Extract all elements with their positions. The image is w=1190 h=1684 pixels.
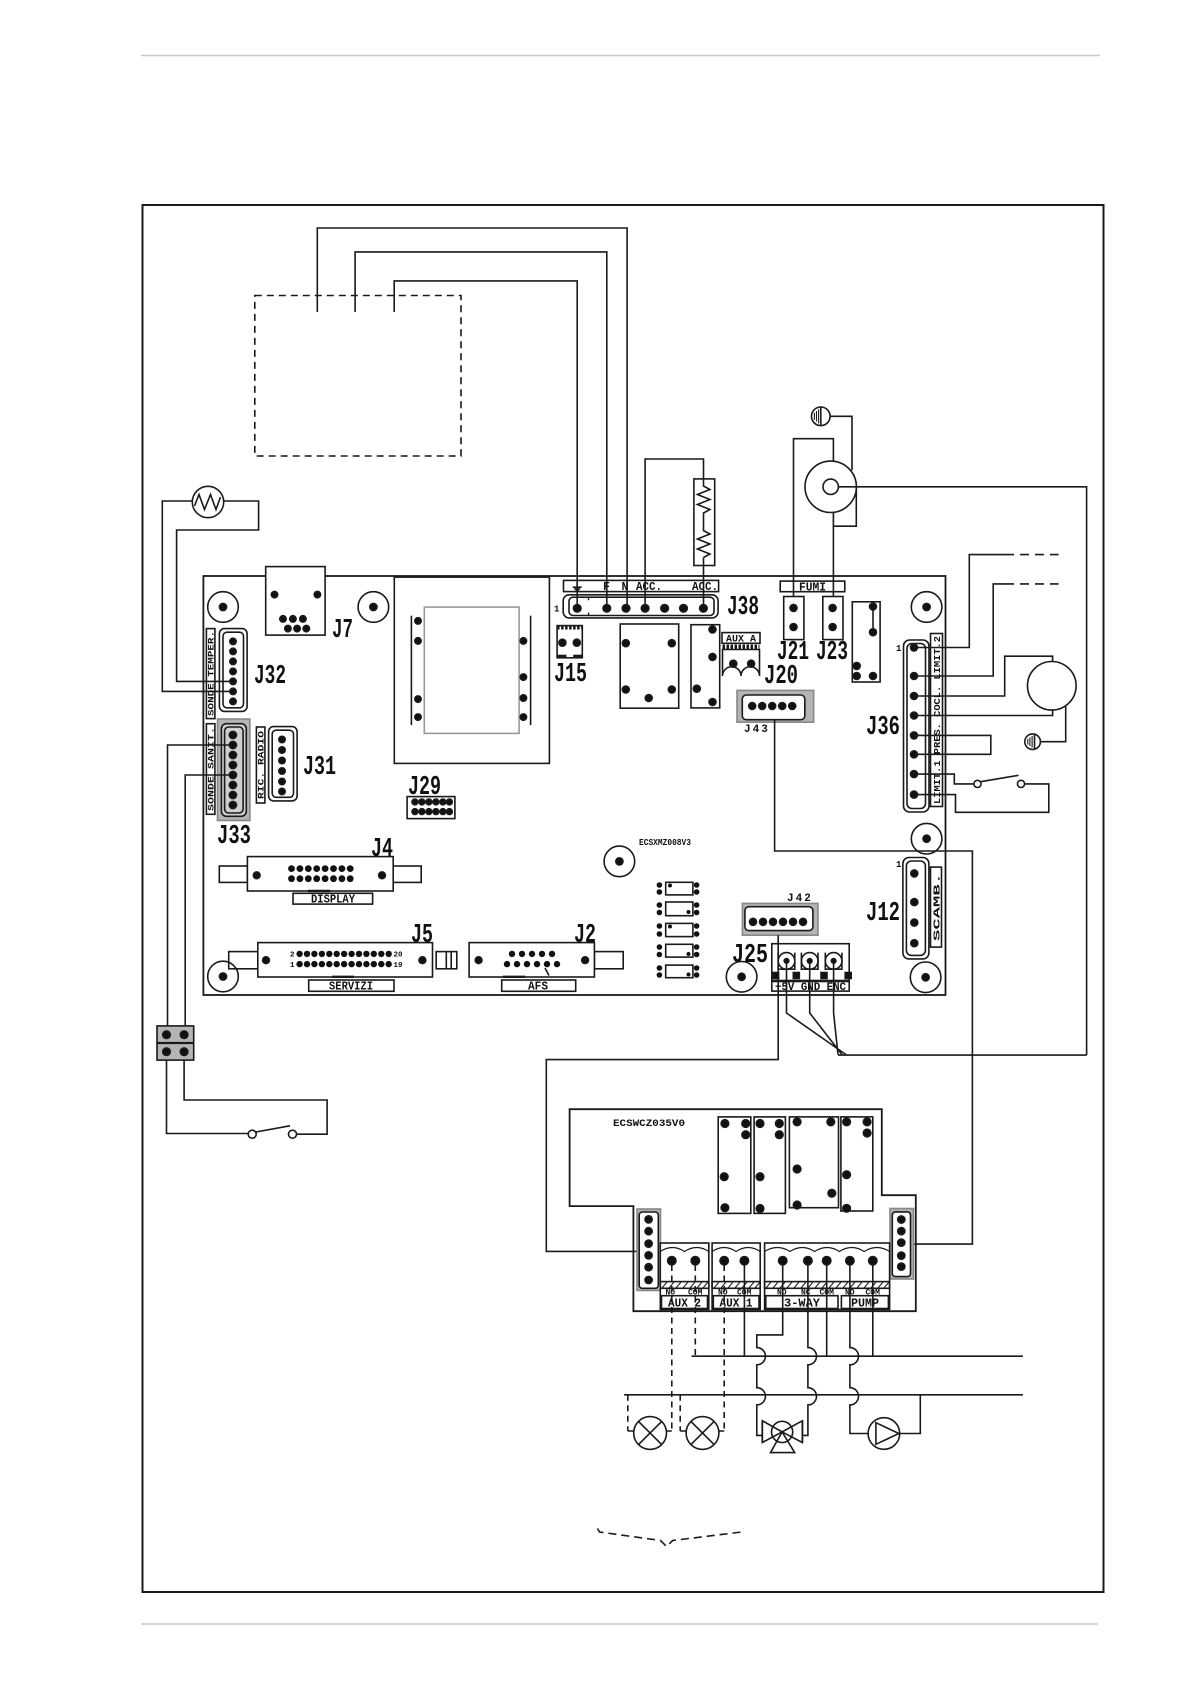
- svg-text:ECSXMZ008V3: ECSXMZ008V3: [639, 838, 691, 848]
- wire 3-WAY NC to valve (with hops): [803, 1265, 816, 1435]
- lamp AUX2: [634, 1417, 667, 1450]
- svg-text:1: 1: [290, 962, 295, 970]
- connector J29: [407, 797, 455, 819]
- screw hole: [208, 961, 239, 992]
- connector J43 (highlighted): [737, 690, 814, 722]
- lower board right connector (highlighted): [890, 1209, 914, 1280]
- connector J12: [896, 858, 929, 959]
- svg-text:J15: J15: [554, 660, 587, 690]
- flue probe: [812, 407, 831, 426]
- svg-text:1: 1: [896, 644, 902, 654]
- FUMI label box: [780, 581, 845, 594]
- connector J31: [269, 727, 298, 801]
- svg-text:RIC. RADIO: RIC. RADIO: [256, 731, 266, 799]
- wire J36 pin5-pin6 jumper: [914, 735, 991, 754]
- fan: [805, 461, 856, 526]
- SCAMB. text box: [931, 867, 943, 947]
- relay K3: [852, 602, 880, 682]
- svg-text:J25: J25: [732, 941, 768, 971]
- svg-text:AUX 2: AUX 2: [668, 1297, 701, 1310]
- SONDE TEMPER. text box: [206, 629, 216, 719]
- connector J23: [823, 597, 843, 640]
- footer rule: [141, 1623, 1098, 1625]
- svg-text:1: 1: [896, 860, 902, 870]
- relay RL3: [789, 1117, 838, 1209]
- wire block to room switch: [167, 1060, 249, 1133]
- earth electrode: [1025, 734, 1041, 750]
- main board ECSXMZ008V3 outline: [203, 576, 945, 995]
- svg-text:AFS: AFS: [528, 981, 548, 994]
- AUX A label box: [722, 633, 760, 646]
- svg-text:AUX A: AUX A: [726, 635, 756, 646]
- svg-text:J7: J7: [332, 616, 353, 646]
- mains line L: [692, 1355, 1023, 1357]
- svg-text:J20: J20: [764, 662, 798, 692]
- wire J36 pin4 to motor bottom: [914, 710, 1053, 715]
- svg-text:J36: J36: [866, 713, 900, 743]
- relay RL1: [718, 1117, 751, 1214]
- svg-text:N: N: [622, 581, 629, 594]
- relay RL2: [754, 1117, 785, 1214]
- wire J43 to lower board right connector: [775, 720, 973, 1244]
- wire probe to fan: [830, 416, 852, 470]
- RIC. RADIO text box: [256, 727, 266, 803]
- wire J21 up (flue duct left): [794, 439, 834, 607]
- connector J21: [784, 597, 804, 640]
- screw hole: [604, 846, 635, 877]
- wire AUX1 COM to line1: [743, 1265, 745, 1356]
- svg-text:20: 20: [394, 952, 404, 960]
- svg-text:LIMIT.1 PRES. COCL. LIMIT.2: LIMIT.1 PRES. COCL. LIMIT.2: [932, 636, 943, 804]
- svg-text:J32: J32: [254, 662, 286, 692]
- svg-text:J12: J12: [866, 899, 900, 929]
- J38 label strip: [564, 580, 719, 594]
- connector J15: [557, 626, 582, 658]
- svg-text:F: F: [603, 581, 610, 594]
- resistor stack (ignition): [694, 479, 715, 566]
- svg-text:J31: J31: [303, 753, 336, 783]
- svg-text:SERVIZI: SERVIZI: [329, 981, 373, 994]
- svg-text:J23: J23: [816, 638, 848, 668]
- connector J5 (servizi): [229, 943, 433, 977]
- pump: [868, 1418, 900, 1450]
- wire AUX2 NO to lamp1 (dashed): [666, 1265, 671, 1431]
- drawing frame: [143, 205, 1104, 1592]
- wire J33 pin5 to terminal block: [185, 775, 230, 1026]
- wire fan to right bus: [838, 487, 1086, 1055]
- SERVIZI label box: [309, 980, 394, 994]
- wire pump to line N: [900, 1395, 921, 1434]
- opto column U5: [657, 882, 700, 978]
- lower board left connector (highlighted): [637, 1209, 661, 1291]
- connector J38: [554, 595, 718, 618]
- relay K1: [620, 624, 679, 708]
- wire motor to earth: [1040, 706, 1065, 742]
- jumper block (room thermostat): [157, 1026, 194, 1060]
- connector J32: [219, 629, 247, 712]
- screw hole: [911, 823, 942, 854]
- svg-text:SONDE TEMPER.: SONDE TEMPER.: [206, 631, 216, 716]
- wire earth to J38 pin1: [394, 281, 577, 606]
- screw hole: [726, 962, 757, 993]
- wire J36 pin7 to limit switch: [914, 774, 974, 784]
- limit switch: [974, 775, 1025, 787]
- connector J4 (display): [219, 857, 421, 891]
- wire PUMP NO to pump (with hops): [850, 1265, 868, 1434]
- connector J7: [266, 567, 325, 636]
- wire N to J38 pin2: [355, 252, 607, 606]
- relay K2: [691, 625, 720, 708]
- svg-text:1: 1: [554, 605, 560, 615]
- wire thermistor to J32 pin6: [162, 501, 230, 691]
- wire J36 pin3 to motor top: [914, 656, 1053, 696]
- wire 3-WAY NO to valve (with hops): [757, 1265, 783, 1435]
- 3-way valve: [762, 1421, 802, 1453]
- connector J36: [896, 640, 929, 812]
- wire fan scroll down to J23: [832, 526, 834, 607]
- wire thermistor to J32 pin5: [177, 501, 259, 681]
- wire AUX2 COM to line1 (dashed): [694, 1265, 696, 1356]
- svg-text:SONDE SANIT.: SONDE SANIT.: [206, 727, 216, 811]
- J5-J2 link piece: [436, 952, 457, 969]
- lower board ECSWCZ035V0 outline: [570, 1109, 916, 1311]
- connector J2 (afs): [469, 943, 623, 977]
- room switch: [248, 1126, 296, 1138]
- screw hole: [358, 592, 389, 623]
- svg-text:ACC.: ACC.: [692, 581, 718, 594]
- svg-text:J33: J33: [217, 822, 251, 852]
- wire GND to encoder bus: [810, 963, 842, 1055]
- wire resistor bottom to J38 pin7: [703, 558, 705, 607]
- relay RL4: [841, 1117, 873, 1212]
- wire line N tap to lamp2 (dashed): [680, 1395, 686, 1431]
- svg-text:FUMI: FUMI: [799, 581, 826, 594]
- screw hole: [208, 592, 239, 623]
- svg-text:ECSWCZ035V0: ECSWCZ035V0: [613, 1118, 685, 1130]
- encoder terminal +5V GND ENC: [772, 944, 851, 994]
- wire line N tap to lamp1 (dashed): [628, 1395, 634, 1431]
- transformer block: [394, 577, 549, 763]
- encoder bus wire: [838, 1054, 1087, 1056]
- svg-text:J38: J38: [727, 593, 759, 623]
- connector J42 (highlighted): [742, 903, 818, 935]
- terminal block 3-WAY / PUMP: [765, 1243, 890, 1310]
- wire J33 pin2 to terminal block: [168, 745, 231, 1026]
- svg-text:3-WAY: 3-WAY: [784, 1297, 820, 1310]
- wire J42 to lower board left connector: [546, 935, 778, 1251]
- DISPLAY label box: [293, 893, 373, 906]
- wire 3-WAY COM to line1: [826, 1265, 828, 1356]
- lamp AUX1: [686, 1417, 719, 1450]
- connector J33 (highlighted): [218, 719, 250, 821]
- screw hole: [910, 962, 941, 993]
- wire J36 pin2 (dashed tail): [914, 584, 1005, 676]
- svg-text:19: 19: [394, 962, 404, 970]
- wire limit switch to J36 pin8: [914, 784, 1049, 812]
- screw hole: [911, 592, 942, 623]
- svg-text:DISPLAY: DISPLAY: [311, 894, 355, 907]
- wire L to J38 pin3: [317, 228, 627, 606]
- svg-text:2: 2: [290, 952, 295, 960]
- svg-text:PUMP: PUMP: [851, 1297, 879, 1310]
- SONDE SANIT. text box: [206, 724, 216, 815]
- wire room switch return to block: [184, 1060, 327, 1134]
- wire AUX1 NO to lamp2 (dashed): [719, 1265, 724, 1431]
- dashed brace (low voltage group): [598, 1529, 744, 1547]
- dashed box (mains supply): [255, 296, 461, 457]
- LIMIT.1 PRES. COCL. LIMIT.2 text box: [931, 634, 944, 807]
- gas valve motor: [1028, 662, 1077, 711]
- wire ENC to encoder bus: [834, 963, 838, 1055]
- wire PUMP COM to line1: [872, 1265, 874, 1356]
- wire J38 pin4 to resistor top: [645, 459, 703, 606]
- connector J20 (AUX A): [723, 647, 760, 676]
- AFS label box: [502, 980, 576, 994]
- svg-text:ACC.: ACC.: [636, 581, 662, 594]
- terminal block AUX 1: [712, 1243, 760, 1310]
- svg-text:J43: J43: [744, 724, 770, 736]
- wire J36 pin1 limit.2 (dash-dot tail): [914, 555, 1005, 648]
- terminal block AUX 2: [660, 1243, 709, 1310]
- mains line N: [624, 1394, 1023, 1396]
- svg-text:SCAMB.: SCAMB.: [932, 873, 943, 941]
- thermistor (sonde temper.): [192, 486, 223, 517]
- wire +5V to encoder bus: [787, 963, 847, 1055]
- header rule: [141, 55, 1100, 57]
